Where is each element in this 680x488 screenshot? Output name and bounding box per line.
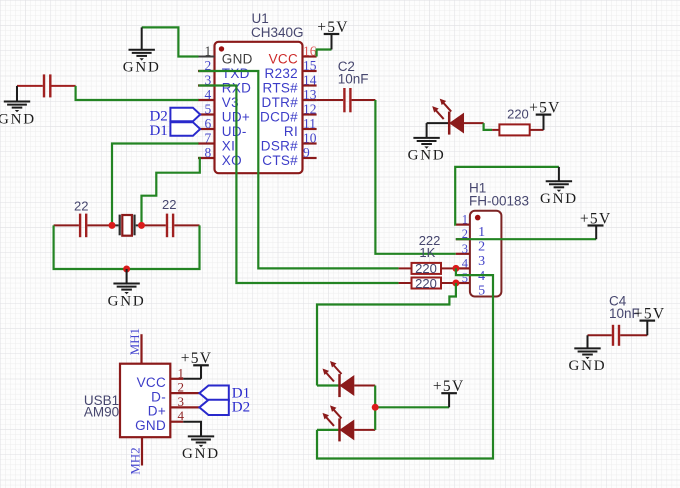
H1 pin 3 stub bbox=[456, 253, 470, 255]
capacitor C1 (left, unlabeled) bbox=[17, 74, 76, 97]
H1 pin 1 stub bbox=[456, 224, 470, 226]
svg-text:GND: GND bbox=[0, 111, 36, 127]
wire USB1 pin 4 to GND bbox=[183, 422, 201, 437]
svg-text:+5V: +5V bbox=[580, 210, 612, 227]
capacitor C2 bbox=[317, 88, 376, 112]
svg-text:1K: 1K bbox=[419, 245, 435, 260]
U1 right pin numbers bbox=[303, 44, 317, 161]
svg-text:+5V: +5V bbox=[317, 19, 349, 36]
capacitor C4 bbox=[588, 325, 648, 346]
wire LED anodes junction bbox=[374, 386, 376, 430]
net label D1 bbox=[149, 123, 167, 139]
svg-text:RTS#: RTS# bbox=[263, 80, 299, 95]
svg-text:CTS#: CTS# bbox=[262, 153, 298, 168]
net flag D1 (to U1 pin 6) bbox=[170, 122, 200, 136]
ground GND (crystal) bbox=[108, 269, 146, 309]
svg-text:AM90: AM90 bbox=[84, 404, 119, 419]
junction LED anode node bbox=[372, 404, 379, 411]
wire H1 pin 1 to GND bbox=[455, 167, 559, 225]
svg-text:UD-: UD- bbox=[222, 124, 247, 139]
power flag +5V (LEDs) bbox=[433, 378, 465, 407]
svg-text:MH2: MH2 bbox=[127, 447, 142, 474]
crystal X1 bbox=[112, 215, 142, 236]
resistor R3 220 bbox=[492, 124, 543, 135]
svg-text:6: 6 bbox=[205, 116, 212, 131]
wire H1 pin 4 to LED2 cathode bbox=[317, 268, 493, 458]
svg-text:14: 14 bbox=[303, 73, 317, 88]
wire LED3 to R3 bbox=[484, 123, 493, 130]
power flag +5V (R3) bbox=[529, 99, 561, 129]
svg-text:CH340G: CH340G bbox=[251, 25, 304, 40]
capacitor 22 (left) bbox=[54, 214, 112, 238]
resistor R3 220 value label bbox=[507, 107, 529, 122]
connector USB1 body AM90 bbox=[120, 364, 170, 438]
svg-text:220: 220 bbox=[415, 276, 437, 291]
USB1 pin 4 stub bbox=[170, 421, 183, 423]
U1 left pin names bbox=[222, 51, 253, 168]
svg-text:MH1: MH1 bbox=[127, 328, 142, 355]
svg-text:220: 220 bbox=[415, 261, 437, 276]
wire U1 pin 7 XI to crystal bbox=[112, 144, 199, 226]
U1 pin 7 stub bbox=[198, 142, 215, 144]
junction crystal right node bbox=[138, 222, 145, 229]
svg-text:3: 3 bbox=[462, 242, 468, 256]
ground GND (above H1) bbox=[540, 167, 578, 207]
U1 pin 12 stub bbox=[303, 113, 317, 115]
capacitor 22 (right) bbox=[142, 214, 200, 238]
svg-text:GND: GND bbox=[222, 51, 253, 66]
svg-text:GND: GND bbox=[182, 446, 220, 462]
svg-text:8: 8 bbox=[205, 145, 212, 160]
net label D1 (USB1) bbox=[232, 385, 250, 401]
H1 pin 5 stub bbox=[456, 282, 470, 284]
power flag +5V (C4) bbox=[634, 305, 666, 335]
svg-text:4: 4 bbox=[478, 269, 485, 284]
U1 left pin numbers bbox=[205, 44, 212, 161]
wire U1 pin 16 to +5V bbox=[317, 50, 332, 57]
wire crystal ground rail bbox=[54, 225, 200, 269]
USB1 pin MH2 stub bbox=[141, 437, 143, 465]
resistor 222 name label bbox=[419, 233, 441, 248]
svg-text:+5V: +5V bbox=[634, 305, 666, 322]
svg-text:R232: R232 bbox=[265, 66, 298, 81]
U1 pin 9 stub bbox=[303, 157, 317, 159]
net flag D1 (USB1 pin 2) bbox=[199, 386, 228, 401]
power flag +5V (U1 pin 16) bbox=[317, 19, 349, 50]
ground GND (C4) bbox=[569, 335, 607, 374]
svg-text:9: 9 bbox=[303, 145, 310, 160]
U1 pin 2 stub bbox=[198, 70, 215, 72]
H1 pin-1 marker dot bbox=[475, 215, 481, 221]
svg-text:GND: GND bbox=[569, 358, 607, 374]
svg-text:3: 3 bbox=[478, 254, 485, 269]
svg-text:D+: D+ bbox=[148, 404, 166, 419]
svg-text:GND: GND bbox=[408, 148, 446, 164]
svg-text:22: 22 bbox=[162, 197, 176, 212]
wire C2 to H1 pin 3 bbox=[375, 100, 455, 254]
wire C1 to U1 pin 4 (V3) bbox=[76, 86, 199, 100]
svg-text:TXD: TXD bbox=[222, 66, 250, 81]
svg-text:+5V: +5V bbox=[433, 378, 465, 395]
USB1 pin MH2 label bbox=[127, 447, 142, 474]
U1 pin 11 stub bbox=[303, 128, 317, 130]
svg-text:12: 12 bbox=[303, 102, 317, 117]
capacitor C2 label bbox=[338, 59, 369, 86]
svg-text:DCD#: DCD# bbox=[260, 109, 298, 124]
svg-text:4: 4 bbox=[462, 256, 469, 270]
U1 pin 10 stub bbox=[303, 142, 317, 144]
USB1 pin 3 stub bbox=[170, 406, 199, 408]
capacitor 22 (right) value label bbox=[162, 197, 176, 212]
LED LED3 (top right) bbox=[427, 99, 484, 135]
wire USB1 pin 1 to +5V bbox=[183, 378, 201, 380]
svg-text:3: 3 bbox=[178, 394, 185, 409]
svg-text:5: 5 bbox=[205, 102, 212, 117]
LED LED2 (bottom) bbox=[317, 405, 375, 441]
svg-text:7: 7 bbox=[205, 131, 212, 146]
capacitor 22 (left) value label bbox=[74, 199, 88, 214]
junction H1 pin 5 node bbox=[452, 280, 459, 287]
svg-text:1: 1 bbox=[178, 365, 185, 380]
connector H1 designator labels bbox=[469, 180, 529, 208]
svg-text:1: 1 bbox=[478, 225, 485, 240]
H1 pin 4 stub bbox=[456, 267, 470, 269]
svg-text:D2: D2 bbox=[232, 400, 250, 416]
svg-text:DSR#: DSR# bbox=[261, 138, 298, 153]
net label D2 (USB1) bbox=[232, 400, 250, 416]
power flag +5V (USB1) bbox=[181, 350, 213, 379]
resistor R1 220 (top) bbox=[399, 261, 456, 276]
wire H1 pin 5 to LED1 cathode bbox=[317, 283, 456, 386]
svg-text:10: 10 bbox=[303, 131, 317, 146]
USB1 pin numbers bbox=[178, 365, 185, 423]
net flag D2 (to U1 pin 5) bbox=[170, 108, 200, 122]
wire LED junction to +5V bbox=[375, 406, 449, 408]
wire U1 pin 3 RXD to R2 bbox=[199, 86, 399, 284]
H1 pin 2 stub bbox=[456, 238, 470, 240]
resistor 222 value label 1K bbox=[419, 245, 435, 260]
svg-text:U1: U1 bbox=[252, 11, 269, 26]
svg-text:GND: GND bbox=[135, 418, 166, 433]
svg-text:+5V: +5V bbox=[181, 350, 213, 367]
U1 right pin names bbox=[260, 51, 298, 168]
ground GND (LED3) bbox=[408, 123, 446, 164]
net flag D2 (USB1 pin 3) bbox=[199, 400, 228, 415]
svg-text:1: 1 bbox=[462, 213, 468, 227]
USB1 pin MH1 label bbox=[127, 328, 142, 355]
svg-text:2: 2 bbox=[478, 240, 485, 255]
svg-text:DTR#: DTR# bbox=[262, 95, 299, 110]
H1 outside pin numbers bbox=[462, 213, 469, 285]
USB1 pin 1 stub bbox=[170, 378, 183, 380]
wire U1 pin 2 TXD to R1 bbox=[199, 71, 399, 268]
svg-text:10nF: 10nF bbox=[338, 72, 369, 87]
ground GND (top left) bbox=[123, 27, 161, 75]
resistor R2 220 (bottom) bbox=[399, 276, 456, 291]
svg-text:VCC: VCC bbox=[137, 375, 166, 390]
svg-text:RI: RI bbox=[284, 124, 298, 139]
wire H1 pin 2 to +5V bbox=[456, 238, 596, 240]
junction ground rail node bbox=[123, 266, 130, 273]
svg-text:GND: GND bbox=[108, 293, 146, 309]
U1 pin 16 stub bbox=[303, 55, 317, 57]
svg-text:22: 22 bbox=[74, 199, 88, 214]
IC U1 CH340G body bbox=[215, 42, 303, 173]
svg-text:GND: GND bbox=[540, 191, 578, 207]
U1 pin 5 stub bbox=[198, 113, 215, 115]
svg-text:GND: GND bbox=[123, 60, 161, 76]
svg-text:5: 5 bbox=[478, 283, 485, 298]
svg-text:XO: XO bbox=[222, 153, 242, 168]
junction H1 pin 4 node bbox=[452, 265, 459, 272]
svg-text:D1: D1 bbox=[149, 123, 167, 139]
U1 pin-1 marker dot bbox=[219, 46, 224, 51]
USB1 pin 2 stub bbox=[170, 392, 199, 394]
svg-text:1: 1 bbox=[205, 44, 212, 59]
svg-text:VCC: VCC bbox=[269, 51, 298, 66]
svg-text:220: 220 bbox=[507, 107, 529, 122]
USB1 pin MH1 stub bbox=[140, 334, 142, 364]
U1 pin 14 stub bbox=[303, 84, 317, 86]
svg-text:4: 4 bbox=[205, 87, 212, 102]
wire GND to U1 pin 1 bbox=[142, 27, 199, 56]
svg-text:11: 11 bbox=[303, 116, 316, 131]
U1 pin 1 stub bbox=[198, 56, 215, 58]
junction crystal left node bbox=[109, 222, 116, 229]
ground GND (below C1) bbox=[0, 86, 36, 127]
svg-text:2: 2 bbox=[178, 380, 185, 395]
svg-text:+5V: +5V bbox=[529, 99, 561, 116]
capacitor C4 label bbox=[609, 293, 640, 321]
U1 pin 8 stub bbox=[198, 157, 215, 159]
net label D2 bbox=[149, 109, 167, 125]
svg-text:13: 13 bbox=[303, 87, 317, 102]
U1 pin 4 stub bbox=[198, 99, 215, 101]
U1 pin 15 stub bbox=[303, 70, 317, 72]
connector USB1 designator labels bbox=[84, 393, 119, 419]
svg-text:16: 16 bbox=[303, 44, 317, 59]
svg-text:XI: XI bbox=[222, 138, 235, 153]
LED LED1 (middle) bbox=[317, 361, 375, 397]
svg-text:D-: D- bbox=[151, 389, 166, 404]
H1 inside pin numbers bbox=[478, 225, 485, 298]
power flag +5V (H1 pin 2) bbox=[580, 210, 612, 239]
connector H1 body FH-00183 bbox=[470, 211, 502, 297]
U1 pin 6 stub bbox=[198, 128, 215, 130]
svg-text:FH-00183: FH-00183 bbox=[469, 194, 529, 209]
wire U1 pin 8 XO to crystal bbox=[142, 158, 200, 225]
svg-text:5: 5 bbox=[462, 271, 468, 285]
svg-text:15: 15 bbox=[303, 58, 317, 73]
U1 designator label bbox=[251, 11, 304, 40]
U1 pin 3 stub bbox=[198, 84, 215, 86]
USB1 pin names bbox=[135, 375, 166, 433]
U1 pin 13 stub bbox=[303, 99, 317, 101]
ground GND (USB1) bbox=[182, 436, 220, 462]
